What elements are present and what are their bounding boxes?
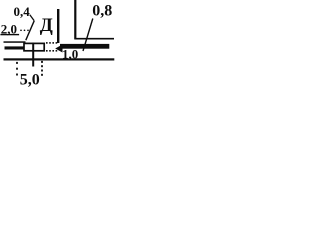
svg-text:0,4: 0,4 bbox=[14, 4, 31, 19]
svg-text:Д: Д bbox=[40, 15, 53, 36]
svg-text:0,8: 0,8 bbox=[92, 3, 112, 20]
svg-text:5,0: 5,0 bbox=[20, 71, 40, 88]
